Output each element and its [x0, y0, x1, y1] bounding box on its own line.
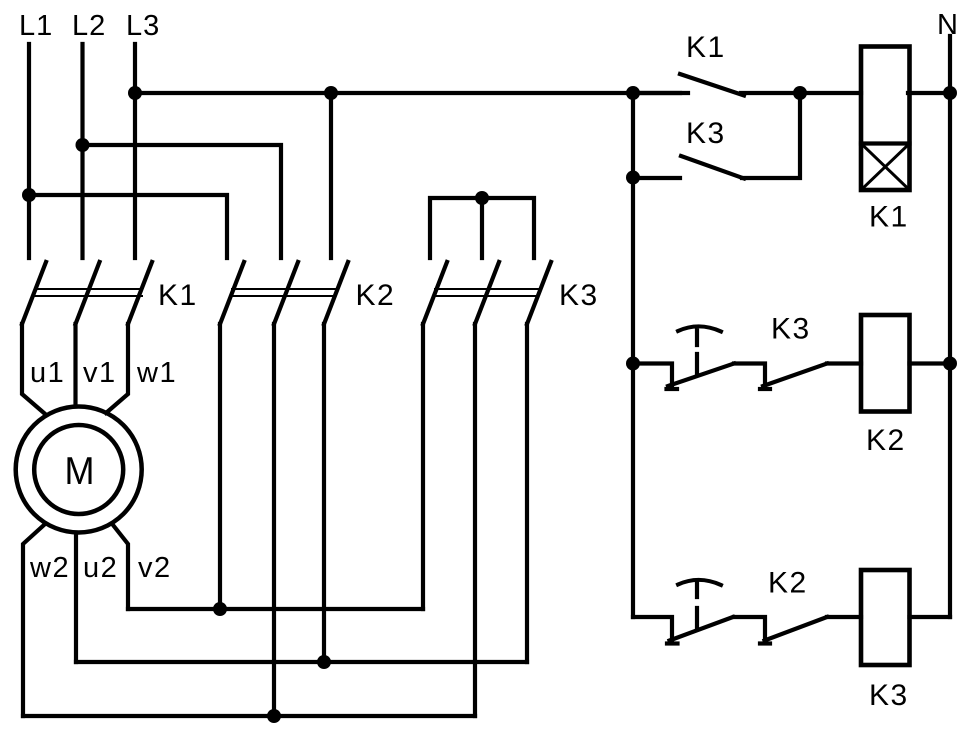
svg-text:L1: L1 [19, 10, 53, 42]
svg-text:K2: K2 [356, 279, 396, 312]
svg-text:K1: K1 [686, 31, 726, 64]
svg-text:v2: v2 [138, 552, 172, 584]
svg-text:v1: v1 [83, 357, 117, 389]
svg-text:K3: K3 [771, 313, 811, 346]
svg-text:L2: L2 [72, 10, 106, 42]
svg-text:u2: u2 [83, 552, 118, 584]
svg-text:u1: u1 [30, 357, 65, 389]
svg-text:w1: w1 [136, 357, 177, 389]
svg-text:L3: L3 [126, 10, 160, 42]
svg-text:N: N [937, 9, 959, 41]
svg-text:K3: K3 [869, 679, 909, 712]
svg-text:K3: K3 [559, 279, 599, 312]
svg-text:K3: K3 [686, 117, 726, 150]
svg-text:w2: w2 [29, 552, 70, 584]
svg-text:K2: K2 [768, 567, 808, 600]
svg-text:K1: K1 [869, 201, 909, 234]
svg-text:K2: K2 [866, 424, 906, 457]
svg-text:M: M [65, 450, 95, 493]
svg-text:K1: K1 [158, 279, 198, 312]
